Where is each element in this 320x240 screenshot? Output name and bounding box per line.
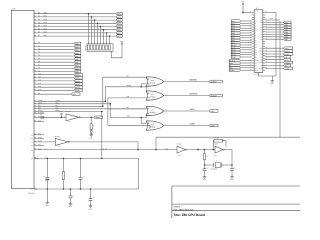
wire address BA14 (pin 15) bbox=[34, 86, 38, 88]
global label BA0 at cpu bbox=[231, 20, 240, 23]
wire U2A output to RESET label bbox=[81, 116, 94, 118]
wire Z80 control pin 16 INT bbox=[241, 64, 252, 66]
global label BA8 bbox=[74, 67, 81, 70]
wire control WR from connector bbox=[34, 108, 38, 110]
junction node BD1 / pull-up bbox=[91, 16, 93, 18]
wire WR to gate U1D bbox=[108, 125, 150, 128]
ground C4 bbox=[89, 205, 93, 207]
svg-text:BD4: BD4 bbox=[117, 25, 120, 28]
svg-text:A6: A6 bbox=[255, 35, 257, 37]
svg-text:IORD: IORD bbox=[190, 108, 196, 111]
svg-text:MREQ: MREQ bbox=[258, 51, 262, 53]
wire RD to gate U1A bbox=[103, 77, 150, 79]
global label BUSAK at cpu bbox=[284, 61, 293, 64]
wire CLK drop from Z80 pin 6 bbox=[279, 21, 281, 137]
wire Z80 pin 18 HALT bbox=[265, 47, 283, 49]
wire U3B out down to crystal bbox=[231, 150, 233, 165]
capacitor C3 100nF decoupling bbox=[80, 158, 82, 160]
wire VCC to pin 11 bbox=[243, 12, 252, 14]
global label BD1 at cpu bbox=[284, 24, 292, 27]
capacitor C7 22pF bbox=[204, 165, 206, 169]
svg-text:U?A: U?A bbox=[68, 121, 71, 123]
global label WAIT at cpu bbox=[229, 62, 240, 65]
svg-text:A5: A5 bbox=[255, 33, 257, 35]
or-gate U1C 74HC32 bbox=[146, 106, 164, 115]
svg-text:BAO: BAO bbox=[30, 138, 33, 140]
wire Z80 address pin 40 A10 bbox=[241, 44, 252, 46]
global label BA11 bbox=[74, 77, 83, 80]
svg-text:A15: A15 bbox=[255, 57, 258, 59]
wire IOWR output bbox=[164, 125, 209, 127]
global label BD4 bbox=[116, 25, 122, 28]
svg-text:U?B: U?B bbox=[57, 146, 60, 148]
wire Z80 address pin 36 A6 bbox=[241, 34, 252, 36]
global label BA14 bbox=[74, 86, 83, 89]
svg-text:D6: D6 bbox=[261, 36, 263, 38]
global label BA12 at cpu bbox=[231, 49, 240, 52]
svg-text:BA14: BA14 bbox=[75, 86, 79, 89]
wire Z80 data pin 7 D4 bbox=[265, 31, 283, 33]
svg-text:BD5: BD5 bbox=[44, 27, 47, 30]
wire Z80 data pin 15 D1 bbox=[265, 24, 283, 26]
wire stub row pin 31 bbox=[34, 134, 38, 136]
inverter U3B 74HC04 bbox=[215, 146, 223, 153]
svg-text:A2: A2 bbox=[255, 25, 257, 27]
svg-text:CLK: CLK bbox=[31, 150, 34, 152]
wire Z80 address pin 1 A11 bbox=[241, 46, 252, 48]
wire data bus BD0 (pin 21 to label) bbox=[34, 13, 38, 15]
svg-text:Y?: Y? bbox=[216, 160, 218, 162]
wire diode to inverter U2A bbox=[44, 116, 66, 118]
wire Z80 control pin 26 RESET bbox=[241, 69, 252, 71]
global label INT at cpu bbox=[229, 64, 240, 67]
svg-text:A4: A4 bbox=[255, 30, 257, 32]
wire Z80 address pin 34 A4 bbox=[241, 30, 252, 32]
global label BA6 bbox=[74, 61, 81, 64]
wire Z80 pin 28 RFSH bbox=[265, 67, 283, 69]
global label BA13 at cpu bbox=[231, 51, 240, 54]
wire CLK top rail bbox=[156, 136, 300, 138]
svg-text:A10: A10 bbox=[255, 45, 258, 47]
global label BM1 bbox=[71, 93, 80, 96]
wire Z80 address pin 30 A0 bbox=[241, 20, 252, 22]
wire Z80 data pin 10 D6 bbox=[265, 36, 283, 38]
svg-text:Title: Z80 CPU Board: Title: Z80 CPU Board bbox=[173, 213, 205, 217]
svg-text:A9: A9 bbox=[255, 42, 257, 44]
global label MEMWR bbox=[209, 94, 222, 97]
global label BUSRQ at cpu bbox=[229, 59, 240, 62]
wire Z80 data pin 14 D0 bbox=[265, 21, 283, 23]
wire data bus BD5 (pin 26 to label) bbox=[34, 29, 38, 31]
cpu U4 pin stubs bbox=[252, 12, 255, 14]
global label BD5 bbox=[116, 28, 122, 31]
global label BA14 at cpu bbox=[231, 53, 240, 56]
global label IORQ at cpu bbox=[284, 53, 293, 56]
svg-text:A3: A3 bbox=[255, 28, 257, 30]
wire Z80 address pin 2 A12 bbox=[241, 49, 252, 51]
wire address BA4 (pin 5) bbox=[34, 55, 38, 57]
wire data bus BD6 (pin 27 to label) bbox=[34, 32, 38, 34]
wire BD2 drop to resistor network bbox=[94, 20, 96, 44]
wire BD1 drop to resistor network bbox=[91, 17, 93, 44]
wire Z80 control pin 25 BUSRQ bbox=[241, 60, 252, 62]
svg-text:D5: D5 bbox=[261, 34, 263, 36]
global label BA5 at cpu bbox=[231, 32, 240, 35]
wire BD7 drop to resistor network bbox=[109, 36, 111, 44]
wire BD6 drop to resistor network bbox=[106, 33, 108, 44]
ground C2 bbox=[69, 203, 73, 205]
svg-text:Z80CPU: Z80CPU bbox=[28, 192, 36, 195]
svg-text:BD6: BD6 bbox=[44, 31, 47, 34]
global label BD7 at cpu bbox=[284, 38, 292, 41]
global label HALT at cpu bbox=[284, 47, 293, 50]
svg-text:BD1: BD1 bbox=[117, 16, 120, 19]
junction MREQ branch bbox=[140, 86, 142, 88]
global label RFSH at cpu bbox=[284, 67, 293, 70]
inverter U2A 74HC14 bbox=[66, 114, 79, 121]
svg-text:BD3: BD3 bbox=[117, 22, 120, 25]
global label BD2 at cpu bbox=[284, 26, 292, 29]
capacitor C2 100nF bbox=[70, 188, 72, 190]
wire R3 to crystal rail bbox=[204, 160, 206, 165]
global label BA9 at cpu bbox=[231, 41, 240, 44]
wire IORQ branch to U1D pin12 bbox=[141, 117, 149, 123]
wire vertical IORQ bus bbox=[109, 104, 111, 118]
junction crystal left bbox=[204, 164, 206, 166]
svg-text:A7: A7 bbox=[255, 37, 257, 39]
or-gate U1B 74HC32 bbox=[146, 91, 164, 100]
global label BA4 at cpu bbox=[231, 29, 240, 32]
svg-text:BD5: BD5 bbox=[117, 29, 120, 32]
capacitor C8 22pF bbox=[231, 165, 233, 169]
wire Z80 address pin 33 A3 bbox=[241, 27, 252, 29]
svg-text:+5V: +5V bbox=[31, 158, 33, 160]
wire Z80 pin 22 WR bbox=[265, 59, 283, 61]
svg-text:BD0: BD0 bbox=[44, 11, 47, 14]
svg-text:D4: D4 bbox=[261, 32, 263, 34]
global label BA13 bbox=[74, 83, 83, 86]
wire Z80 pin 29 GND rail right bbox=[265, 12, 276, 14]
svg-text:D2: D2 bbox=[261, 27, 263, 29]
resistor R2 LED series bbox=[90, 117, 92, 124]
svg-text:A12: A12 bbox=[255, 49, 258, 51]
wire address BA6 (pin 7) bbox=[34, 61, 38, 63]
svg-text:BA8: BA8 bbox=[75, 67, 78, 70]
global label BD1 bbox=[116, 16, 122, 19]
wire Z80 pin 27 M1 bbox=[265, 65, 283, 67]
wire address BA13 (pin 14) bbox=[34, 83, 38, 85]
ground Z80 bbox=[271, 76, 273, 81]
global label BA4 bbox=[74, 55, 81, 58]
svg-text:M1: M1 bbox=[261, 65, 263, 67]
svg-text:BA12: BA12 bbox=[75, 80, 79, 83]
wire MREQ branch to U1A pin2 bbox=[141, 84, 149, 87]
wire Z80 data pin 13 D7 bbox=[265, 38, 283, 40]
global label BD7 bbox=[116, 35, 122, 38]
ground osc right bbox=[230, 176, 234, 178]
resistor R3 series osc bbox=[204, 150, 206, 154]
svg-text:CLK: CLK bbox=[260, 20, 263, 22]
or-gate U1A 74HC32 bbox=[146, 77, 164, 86]
wire WR to gate U1B bbox=[108, 97, 149, 99]
junction node BD4 / pull-up bbox=[100, 26, 102, 28]
or-gate U1D 74HC32 bbox=[146, 121, 164, 130]
svg-text:IORQ: IORQ bbox=[259, 54, 262, 56]
global label BA2 at cpu bbox=[231, 25, 240, 28]
svg-text:A14: A14 bbox=[255, 54, 258, 56]
wire Z80 GND pin bottom bbox=[259, 72, 277, 76]
svg-text:MEMWR: MEMWR bbox=[190, 93, 199, 96]
svg-text:BD3: BD3 bbox=[44, 21, 47, 24]
wire Z80 address pin 31 A1 bbox=[241, 22, 252, 24]
junction node BD7 / pull-up bbox=[109, 35, 111, 37]
global label BA3 at cpu bbox=[231, 27, 240, 30]
wire reset row from connector pin 26 bbox=[34, 116, 38, 118]
svg-text:BD0: BD0 bbox=[117, 13, 120, 16]
wire CLK row from connector to oscillator bbox=[34, 149, 38, 151]
svg-text:BA3: BA3 bbox=[75, 52, 78, 55]
wire data bus BD4 (pin 25 to label) bbox=[34, 26, 38, 28]
global label BD3 at cpu bbox=[284, 28, 292, 31]
svg-text:RD: RD bbox=[261, 56, 263, 58]
global label BA10 at cpu bbox=[231, 44, 240, 47]
wire VCC rail bbox=[34, 158, 38, 160]
wire control MREQ from connector bbox=[34, 100, 38, 102]
wire stub BUSRQ bbox=[34, 112, 38, 114]
resistor R5 pull bbox=[63, 158, 65, 160]
wire address BA0 (pin 1) bbox=[34, 43, 38, 45]
junction osc node A bbox=[197, 149, 199, 151]
wire Z80 data pin 12 D2 bbox=[265, 26, 283, 28]
svg-text:BA4: BA4 bbox=[75, 55, 78, 58]
wire Z80 address pin 32 A2 bbox=[241, 25, 252, 27]
wire stub row pin 22 bbox=[34, 137, 38, 139]
wire GND rail bbox=[34, 188, 38, 190]
wire stub row pin 29 bbox=[34, 144, 38, 146]
svg-text:HALT: HALT bbox=[259, 48, 262, 50]
wire row pin 23 to inverter U2B bbox=[34, 141, 38, 143]
wire Z80 pin 19 MREQ bbox=[265, 50, 283, 52]
global label BA5 bbox=[74, 58, 81, 61]
global label BA7 at cpu bbox=[231, 37, 240, 40]
wire data bus BD1 (pin 22 to label) bbox=[34, 16, 38, 18]
svg-text:CLK: CLK bbox=[44, 149, 47, 151]
svg-text:D0: D0 bbox=[261, 22, 263, 24]
junction U2B output on CLK bbox=[137, 149, 139, 151]
wire data bus BD7 (pin 28 to label) bbox=[34, 35, 38, 37]
junction CLK riser bbox=[155, 149, 157, 151]
global label RESET at cpu bbox=[229, 69, 240, 72]
svg-text:BA5: BA5 bbox=[75, 58, 78, 61]
wire CLK riser to top rail bbox=[155, 137, 157, 149]
wire vertical MREQ bus bbox=[104, 87, 106, 102]
global label MEMRD bbox=[209, 80, 222, 83]
global label BA15 bbox=[74, 89, 83, 92]
svg-text:BD2: BD2 bbox=[44, 18, 47, 21]
svg-text:INT: INT bbox=[255, 65, 257, 67]
wire GND right column bbox=[275, 13, 277, 76]
led D2 power indicator bbox=[90, 129, 92, 131]
global label M1 at cpu bbox=[284, 64, 291, 67]
svg-text:BUSAK: BUSAK bbox=[258, 62, 263, 64]
global label BA15 at cpu bbox=[231, 56, 240, 59]
cpu U4 Z80 body bbox=[254, 10, 263, 73]
wire address BA7 (pin 8) bbox=[34, 64, 38, 66]
inverter U2B 74HC14 bbox=[55, 138, 68, 145]
svg-text:U?: U? bbox=[256, 7, 258, 10]
svg-text:BA13: BA13 bbox=[75, 83, 79, 86]
global label BD0 at cpu bbox=[284, 21, 292, 24]
wire IORD output bbox=[164, 110, 209, 112]
svg-text:RESET: RESET bbox=[255, 70, 260, 72]
wire Z80 pin 20 IORQ bbox=[265, 53, 283, 55]
wire control RFSH from connector bbox=[34, 111, 38, 113]
connector CN1 (Z80 bus, 40-pin) bbox=[11, 10, 34, 188]
wire stub NMI bbox=[34, 121, 38, 123]
global label BA8 at cpu bbox=[231, 39, 240, 42]
wire Z80 data pin 9 D5 bbox=[265, 33, 283, 35]
global label IOWR bbox=[209, 124, 218, 127]
svg-text:A1: A1 bbox=[255, 23, 257, 25]
svg-text:C?: C? bbox=[234, 167, 236, 169]
svg-text:File: Z80-CPU8.sch: File: Z80-CPU8.sch bbox=[174, 208, 195, 211]
wire address BA1 (pin 2) bbox=[34, 46, 38, 48]
wire Z80 address pin 37 A7 bbox=[241, 37, 252, 39]
global label BA1 bbox=[74, 45, 81, 48]
junction IORQ branch bbox=[140, 117, 142, 119]
svg-text:D?: D? bbox=[40, 114, 42, 116]
global label BA2 bbox=[74, 48, 81, 51]
wire Z80 CLK pin 6 bbox=[265, 19, 280, 21]
wire BD3 drop to resistor network bbox=[97, 23, 99, 44]
svg-text:INT: INT bbox=[31, 145, 33, 147]
global label BD4 at cpu bbox=[284, 31, 292, 34]
svg-text:C?: C? bbox=[207, 167, 209, 169]
svg-text:74HC14: 74HC14 bbox=[65, 111, 70, 113]
svg-text:WR: WR bbox=[260, 59, 262, 61]
junction node BD5 / pull-up bbox=[103, 29, 105, 31]
junction RESET/LED bbox=[90, 117, 92, 119]
crystal Y1 7.3728MHz bbox=[205, 164, 214, 166]
wire Z80 pin 23 BUSAK bbox=[265, 62, 283, 64]
global label BA11 at cpu bbox=[231, 46, 240, 49]
svg-text:IOWR: IOWR bbox=[190, 123, 196, 126]
junction node BD2 / pull-up bbox=[94, 19, 96, 21]
resistor R4 1M feedback bbox=[212, 141, 215, 150]
wire control RD from connector bbox=[34, 105, 38, 107]
wire MEMRD output bbox=[164, 81, 209, 83]
wire address BA8 (pin 9) bbox=[34, 68, 38, 70]
junction node BD0 / pull-up bbox=[88, 13, 90, 15]
junction node BD3 / pull-up bbox=[97, 23, 99, 25]
global label BD6 bbox=[116, 32, 122, 35]
global label BD0 bbox=[116, 12, 122, 15]
wire RN1 common to VCC bbox=[112, 44, 123, 58]
global label BD6 at cpu bbox=[284, 36, 292, 39]
wire M1 row with global label bbox=[34, 93, 38, 95]
svg-text:BD7: BD7 bbox=[117, 35, 120, 38]
global label BA10 bbox=[74, 73, 83, 76]
resistor network RN1 4k7 pull-ups bbox=[87, 44, 113, 52]
svg-text:A13: A13 bbox=[255, 52, 258, 54]
svg-text:C?: C? bbox=[83, 176, 85, 178]
wire RD to gate U1C bbox=[109, 108, 150, 110]
svg-text:A0: A0 bbox=[255, 21, 257, 23]
wire Z80 address pin 35 A5 bbox=[241, 32, 252, 34]
svg-text:MEMRD: MEMRD bbox=[190, 79, 198, 82]
svg-text:BD6: BD6 bbox=[117, 32, 120, 35]
svg-text:D3: D3 bbox=[261, 29, 263, 31]
global label BA3 bbox=[74, 52, 81, 55]
wire Z80 data pin 8 D3 bbox=[265, 29, 283, 31]
wire Z80 address pin 5 A15 bbox=[241, 56, 252, 58]
capacitor C4 100nF bbox=[90, 189, 92, 198]
capacitor C1 10uF electrolytic bbox=[47, 158, 49, 160]
ground below LED bbox=[89, 134, 93, 136]
wire BD5 drop to resistor network bbox=[103, 30, 105, 44]
svg-text:GND: GND bbox=[30, 189, 33, 191]
wire address BA2 (pin 3) bbox=[34, 49, 38, 51]
svg-text:R?: R? bbox=[206, 156, 208, 158]
junction VCC pin 11 bbox=[242, 12, 244, 14]
global label RD at cpu bbox=[284, 56, 291, 59]
global label BA7 bbox=[74, 64, 81, 67]
wire GND rail riser to logic area bbox=[138, 159, 140, 190]
global label NMI at cpu bbox=[229, 67, 240, 70]
svg-text:74HC04: 74HC04 bbox=[176, 144, 181, 146]
svg-text:U?B: U?B bbox=[214, 155, 217, 157]
svg-text:Sheet: /: Sheet: / bbox=[174, 206, 182, 209]
ground osc left bbox=[203, 176, 207, 178]
global label BA6 at cpu bbox=[231, 34, 240, 37]
wire address BA10 (pin 11) bbox=[34, 74, 38, 76]
svg-text:BA0: BA0 bbox=[75, 42, 78, 45]
wire BD4 drop to resistor network bbox=[100, 27, 102, 44]
svg-text:D1: D1 bbox=[261, 24, 263, 26]
diode D1 reset bbox=[41, 116, 44, 119]
svg-text:BA2: BA2 bbox=[75, 49, 78, 52]
svg-text:RFSH: RFSH bbox=[259, 68, 263, 70]
wire Z80 address pin 39 A9 bbox=[241, 42, 252, 44]
wire address BA5 (pin 6) bbox=[34, 58, 38, 60]
svg-text:BA6: BA6 bbox=[75, 61, 78, 64]
global label WR at cpu bbox=[284, 58, 291, 61]
svg-text:BD2: BD2 bbox=[117, 19, 120, 22]
global label BD3 bbox=[116, 22, 122, 25]
svg-text:CN?: CN? bbox=[12, 8, 16, 11]
inverter U3A 74HC04 oscillator driver bbox=[177, 146, 185, 153]
wire vertical WR bus bbox=[107, 98, 109, 125]
svg-text:C?: C? bbox=[43, 176, 45, 178]
wire vertical RFSH/sync drop bbox=[101, 112, 103, 159]
svg-text:C?: C? bbox=[93, 197, 95, 199]
global label BA9 bbox=[74, 70, 81, 73]
wire address BA9 (pin 10) bbox=[34, 71, 38, 73]
wire C1 to ground bbox=[46, 189, 48, 202]
wire MREQ to gate U1A/U1B bbox=[105, 87, 149, 93]
wire IORQ to gate U1C bbox=[110, 113, 149, 117]
wire data bus BD2 (pin 23 to label) bbox=[34, 19, 38, 21]
global label BA12 bbox=[74, 80, 83, 83]
wire address BA12 (pin 13) bbox=[34, 80, 38, 82]
global label IORD bbox=[209, 110, 218, 113]
wire U2B output to CLK net join bbox=[70, 142, 138, 150]
wire vertical RD bus bbox=[102, 77, 104, 106]
wire Z80 address pin 4 A14 bbox=[241, 54, 252, 56]
global label BD5 at cpu bbox=[284, 33, 292, 36]
wire Z80 address pin 3 A13 bbox=[241, 51, 252, 53]
svg-text:BA9: BA9 bbox=[75, 71, 78, 74]
